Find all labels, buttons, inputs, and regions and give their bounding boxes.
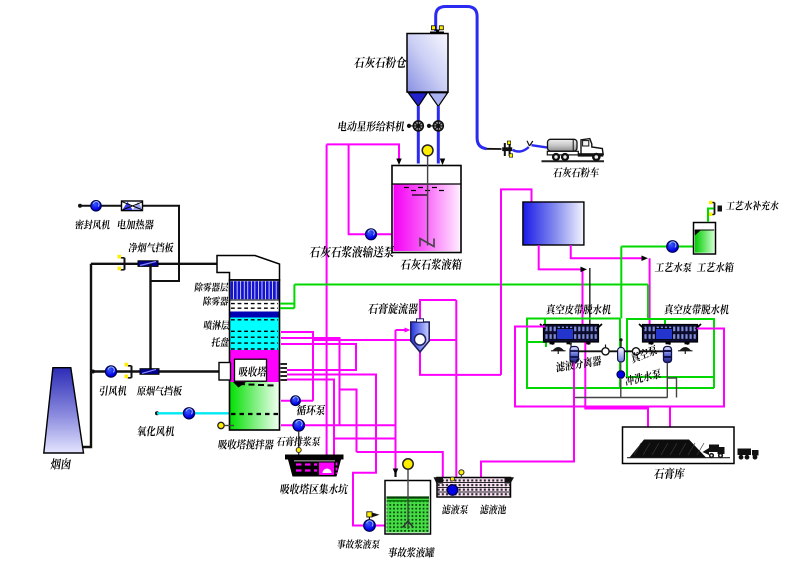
vessel: slurry buffer box	[523, 202, 584, 245]
vehicle: wheel loader	[703, 445, 725, 459]
valve: raw gas damper bracket	[125, 363, 132, 378]
pump: limestone slurry transfer pump	[366, 229, 377, 240]
wire: buffer drain to left belt	[539, 245, 587, 325]
pump: circulation pump 1	[291, 396, 301, 406]
separator: gypsum cyclone	[411, 319, 429, 352]
label: 石膏排浆泵	[276, 436, 321, 446]
device: emergency tank agitator	[403, 459, 414, 529]
label: 石灰石粉仓	[354, 56, 408, 68]
fan: oxidation fan	[183, 408, 194, 419]
tower section: demister layer (blue bars)	[230, 280, 280, 300]
wire: cyclone overflow loop	[420, 300, 456, 321]
wire: demister flush lines	[280, 285, 294, 309]
wire: magenta drop to transfer pump	[349, 144, 392, 234]
label: 电加热器	[117, 219, 154, 229]
label: 工艺水箱	[697, 262, 735, 272]
vessel: absorber tower outline	[230, 280, 280, 430]
wire: spray line C + riser + header	[281, 344, 356, 370]
pool: filtrate pool	[434, 477, 515, 497]
label: 石膏库	[654, 468, 686, 479]
device: vacuum pump receiver	[618, 338, 625, 362]
label: 喷淋层	[203, 320, 230, 330]
wire: buffer drain to right belt	[571, 245, 650, 325]
label: 冲洗水泵	[625, 368, 661, 386]
wire: left belt wash loop (green)	[527, 319, 714, 389]
label: 事故浆液泵	[337, 539, 381, 549]
wire: unloading hose & coupling	[487, 141, 548, 157]
vessel: process water tank	[694, 223, 716, 255]
label: 滤液泵	[442, 504, 469, 514]
wire: duct to chimney	[82, 264, 91, 447]
node: silo inlet fitting	[430, 26, 444, 35]
label: 托盘	[211, 337, 230, 347]
label: 原烟气挡板	[137, 386, 183, 396]
fan: seal fan	[91, 201, 101, 211]
wire: gypsum pump discharge header	[281, 424, 396, 426]
tower section: dark blue band	[230, 312, 280, 318]
pile: gypsum pile	[627, 440, 730, 458]
wire: filtrate return to tower	[313, 339, 456, 341]
wire: comb line to sump	[287, 380, 334, 462]
tower section: oxidation zone (green)	[230, 382, 280, 430]
label: 石灰石浆液输送泵	[309, 246, 395, 258]
machine: vacuum belt dewatering machine 2	[639, 324, 701, 345]
stack: chimney	[44, 368, 84, 453]
label: 氧化风机	[137, 426, 175, 436]
device: slurry tank agitator	[420, 145, 434, 247]
fan: induced draft fan	[105, 366, 116, 377]
label: 密封风机	[75, 220, 111, 230]
label: 工艺水泵	[655, 262, 693, 272]
tower section: demister (white band with dashes)	[230, 300, 280, 312]
label: 烟囱	[50, 458, 71, 469]
wire: green header drop	[647, 285, 649, 320]
wire: belt wash water loop (magenta)	[515, 327, 724, 407]
label: 引风机	[99, 386, 128, 396]
node: tank inlet arrow	[440, 159, 446, 166]
valve: clean gas damper bracket	[118, 255, 125, 270]
pit: absorber area sump	[285, 455, 344, 477]
wire: right belt wash loop (green)	[627, 319, 714, 388]
vehicle: dump truck (outside)	[738, 449, 759, 460]
pump: emergency slurry pump	[364, 512, 380, 532]
device: electric star feeder 2	[427, 121, 443, 131]
label: 除雾器	[203, 296, 229, 305]
vessel: limestone powder silo	[407, 34, 448, 107]
wire: left belt discharge to pile	[585, 343, 650, 439]
label: 石灰石粉车	[553, 167, 600, 177]
tower label box	[235, 359, 267, 381]
label: 除雾器层	[195, 282, 229, 291]
wire: vacuum pump manifold	[578, 350, 664, 352]
label: 事故浆液罐	[388, 547, 435, 557]
machine: vacuum belt dewatering machine 1	[540, 324, 602, 345]
wire: long magenta line x=326 (to sump)	[326, 144, 328, 461]
wire: process water pump line	[621, 247, 693, 319]
wire: seal air line	[78, 204, 121, 208]
wire: silo discharge pipes (blue)	[418, 106, 438, 164]
label: 滤液池	[480, 504, 507, 514]
wire: raw flue gas duct	[91, 370, 220, 374]
tower section: tray band (magenta)	[230, 350, 280, 382]
label: 循环泵	[296, 405, 326, 416]
device: electric star feeder 1	[407, 121, 423, 131]
label: 滤液分离器	[556, 355, 601, 372]
funnel: right belt drain	[678, 347, 693, 354]
vessel: emergency slurry tank	[385, 481, 431, 535]
pump: flushing water pump	[617, 362, 625, 378]
pump: vacuum pump rotors	[602, 345, 640, 355]
device: absorber agitator	[218, 422, 234, 428]
wire: long process water header (green)	[294, 284, 648, 286]
valve: process water make-up	[708, 201, 722, 222]
wire: spray line B + riser	[281, 338, 340, 425]
wire: separator 1 drain to pool	[481, 363, 574, 481]
building: gypsum storehouse shed	[623, 427, 735, 464]
wire: clean flue gas duct	[91, 263, 217, 265]
pump: filtrate pump	[447, 470, 464, 496]
label: 真空皮带脱水机	[664, 304, 730, 314]
label: 吸收塔	[238, 366, 267, 376]
vessel: absorber tower top hat	[217, 256, 280, 281]
wire: cyclone feed stub	[396, 328, 411, 333]
wire: oxidation air line	[155, 411, 229, 415]
wire: pneumatic conveying pipe (truck to silo)	[436, 7, 487, 149]
wire: cyclone underflow	[420, 352, 501, 375]
label: 工艺水补充水	[726, 201, 780, 211]
wire: emergency pump suction	[287, 375, 385, 526]
wire: cyclone feed riser	[393, 330, 399, 475]
wire: seal air to bypass	[143, 206, 180, 281]
wire: filtrate return line to slurry tank (magenta)	[327, 144, 402, 165]
wire: spray line A + riser	[281, 332, 313, 401]
device: electric heater	[122, 201, 144, 211]
node: emergency tank inlet	[394, 472, 396, 477]
pump: gypsum slurry discharge pump	[293, 420, 305, 432]
wire: left belt feed (gray)	[589, 268, 591, 326]
label: 吸收塔搅拌器	[218, 439, 274, 449]
label: 石灰石浆液箱	[400, 259, 462, 270]
label: 电动星形给料机	[338, 121, 405, 132]
separator: filtrate separator 2	[664, 347, 672, 363]
duct: raw gas inlet box	[219, 363, 231, 381]
valve: raw flue gas damper	[140, 369, 159, 375]
label: 真空皮带脱水机	[546, 304, 612, 314]
separator: filtrate separator 1	[570, 342, 579, 363]
valve: clean flue gas damper	[138, 261, 158, 267]
label: 石膏旋流器	[368, 303, 419, 314]
label: 真空泵	[630, 344, 657, 364]
label: 净烟气挡板	[128, 242, 174, 252]
funnel: left belt drain	[551, 347, 566, 354]
wire: riser links	[340, 390, 357, 453]
wire: separator 2 drain (gray)	[575, 363, 677, 398]
wire: pump2 drain to sump	[296, 431, 301, 456]
wire: buffer box top loop	[501, 189, 532, 375]
label: 吸收塔区集水坑	[280, 484, 349, 495]
wire: right line to pile	[667, 407, 673, 439]
wire: cyclone overflow to pool	[455, 300, 457, 478]
wire: branch to cyclone riser	[334, 438, 396, 440]
node: spray header flanges (comb)	[281, 364, 288, 380]
wire: circulation pump 1 suction	[281, 400, 313, 402]
tower section: spray zone (cyan)	[230, 318, 280, 351]
wire: bypass duct	[149, 264, 151, 372]
pump: process water pump	[667, 241, 679, 253]
wire: line to filtrate pool inlet	[357, 452, 443, 481]
vessel: limestone slurry tank	[392, 166, 461, 253]
vehicle: limestone powder truck	[542, 139, 605, 162]
